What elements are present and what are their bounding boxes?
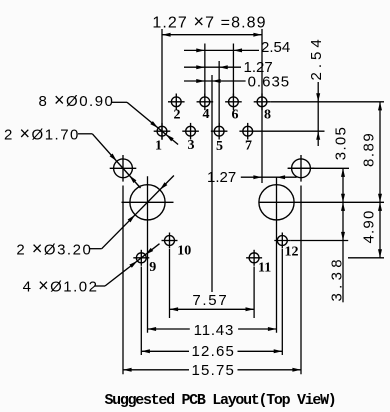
callout 2×Ø3.20 leader [90, 176, 174, 249]
svg-text:11.43: 11.43 [194, 322, 234, 339]
wire pad12-row extension right [290, 240, 348, 242]
svg-text:1.27 ×7 =8.89: 1.27 ×7 =8.89 [152, 12, 266, 32]
dimension 4.90 line [378, 202, 382, 257]
dimension 0.635 label [248, 74, 291, 91]
pin number label 10 [177, 244, 191, 259]
callout 8×Ø0.90 label [39, 90, 115, 110]
dimension 4.90 label [361, 210, 378, 244]
svg-text:15.75: 15.75 [192, 362, 236, 379]
pad 6 (Ø0.90) [225, 94, 242, 111]
dimension 2.54 label [261, 39, 290, 56]
pad 11 (Ø1.02) [246, 250, 262, 266]
pin number label 9 [149, 260, 156, 275]
callout 8×Ø0.90 leader [112, 102, 178, 144]
dimension 1.27 (pin4-pin5) line [184, 65, 241, 69]
pin number label 12 [285, 245, 299, 260]
svg-text:3.38: 3.38 [329, 255, 346, 301]
dimension 7.57 label [192, 292, 228, 309]
svg-text:7.57: 7.57 [192, 292, 228, 309]
svg-text:2.54: 2.54 [261, 39, 290, 56]
dimension 11.43 label [194, 322, 234, 339]
wire left hole H1 extension down [122, 186, 124, 375]
wire pad10 extension down [169, 249, 171, 318]
svg-text:Suggested PCB Layout(Top VieW): Suggested PCB Layout(Top VieW) [104, 392, 335, 409]
dimension 12.65 line [141, 349, 282, 353]
dimension 11.43 line [148, 327, 277, 331]
dimension 3.05 line [341, 168, 345, 202]
svg-text:9: 9 [149, 260, 156, 275]
pin number label 6 [232, 108, 239, 123]
svg-text:4: 4 [203, 107, 210, 122]
pin number label 8 [264, 108, 271, 123]
pad 3 (Ø0.90) [182, 123, 199, 140]
svg-text:0.635: 0.635 [248, 74, 291, 91]
hole H1 left (Ø1.70) [110, 155, 137, 182]
pin number label 2 [174, 108, 181, 123]
callout 4×Ø1.02 label [23, 276, 99, 296]
pad 10 (Ø1.02) [162, 233, 178, 249]
pad 7 (Ø0.90) [239, 123, 256, 140]
dimension 3.38 line [341, 202, 345, 302]
svg-text:4.90: 4.90 [361, 210, 378, 244]
wire pin5 extension line [218, 61, 220, 126]
svg-text:11: 11 [258, 261, 271, 276]
pad 8 (Ø0.90) [254, 94, 271, 111]
wire odd-pin-row extension right [256, 130, 325, 132]
pin number label 4 [203, 107, 210, 122]
wire even-pin-row extension right [270, 101, 384, 103]
svg-text:12: 12 [285, 245, 299, 260]
wire pad11 extension down [253, 267, 255, 319]
svg-text:8 ×Ø0.90: 8 ×Ø0.90 [39, 90, 115, 110]
svg-text:10: 10 [177, 244, 191, 259]
dimension 3.38 label [329, 255, 346, 301]
dimension 8.89 label [361, 132, 378, 167]
svg-text:1: 1 [155, 139, 162, 154]
shield hole left (Ø3.20) [130, 185, 165, 220]
dimension 1.27 (mid) label [207, 169, 236, 186]
dimension 1.27 (pin8 to shield hole) line [241, 175, 297, 179]
dimension 2.54 (pin4-pin6) line [184, 48, 259, 52]
wire center axis line [211, 75, 213, 292]
shield hole right (Ø3.20) [259, 185, 294, 220]
wire right hole H2 extension down [300, 186, 302, 375]
svg-text:2 ×Ø3.20: 2 ×Ø3.20 [16, 239, 92, 259]
pad 5 (Ø0.90) [211, 123, 228, 140]
wire right shield hole horizontal centerline extended [259, 201, 385, 203]
hole H2 right (Ø1.70) [288, 155, 315, 182]
pin number label 1 [155, 139, 162, 154]
svg-text:5: 5 [216, 139, 223, 154]
svg-text:8.89: 8.89 [361, 132, 378, 167]
pin number label 5 [216, 139, 223, 154]
caption Suggested PCB Layout(Top VieW) [104, 392, 335, 409]
wire pin8 extension line [261, 29, 263, 183]
wire pad9-row extension right [348, 257, 384, 259]
wire pin6 extension line [232, 44, 234, 97]
svg-text:2.54: 2.54 [308, 35, 325, 80]
dimension 15.75 line [123, 368, 301, 372]
dimension 1.27×7=8.89 label [152, 12, 266, 32]
dimension 8.89 line [378, 102, 382, 203]
svg-text:8: 8 [264, 108, 271, 123]
callout 4×Ø1.02 leader [94, 244, 159, 286]
pad 4 (Ø0.90) [197, 94, 214, 111]
wire right hole H2 extension right [288, 167, 349, 169]
wire pad12 extension down [281, 249, 283, 355]
svg-text:4 ×Ø1.02: 4 ×Ø1.02 [23, 276, 99, 296]
wire pin4 extension line [204, 44, 206, 97]
pad 1 (Ø0.90) [154, 123, 171, 140]
pad 9 (Ø1.02) [133, 250, 149, 266]
svg-text:1.27: 1.27 [207, 169, 236, 186]
callout 2×Ø3.20 label [16, 239, 92, 259]
svg-text:3.05: 3.05 [333, 126, 350, 160]
svg-text:6: 6 [232, 108, 239, 123]
dimension 2.54 vertical (pin rows) line [316, 82, 320, 146]
dimension 2.54 vertical label [308, 35, 325, 80]
dimension 0.635 (pin4-center) line [184, 79, 246, 83]
dimension 7.57 line [170, 307, 255, 311]
pin number label 7 [245, 139, 252, 154]
wire right shield hole centerline [276, 177, 278, 333]
svg-text:12.65: 12.65 [192, 343, 236, 360]
wire pin1 extension line [161, 29, 163, 140]
wire left shield hole horizontal centerline [122, 201, 174, 203]
dimension 1.27 label [244, 59, 273, 76]
svg-text:2 ×Ø1.70: 2 ×Ø1.70 [4, 124, 80, 144]
wire left shield hole centerline [147, 176, 149, 333]
svg-text:3: 3 [188, 138, 195, 153]
svg-text:2: 2 [174, 108, 181, 123]
pad 2 (Ø0.90) [168, 94, 185, 111]
pad 12 (Ø1.02) [274, 233, 290, 249]
dimension 15.75 label [192, 362, 236, 379]
dimension 3.05 label [333, 126, 350, 160]
dimension 1.27×7=8.89 line [162, 33, 262, 37]
dimension 12.65 label [192, 343, 236, 360]
callout 2×Ø1.70 label [4, 124, 80, 144]
wire pad9 extension down [140, 267, 142, 356]
pin number label 11 [258, 261, 271, 276]
pin number label 3 [188, 138, 195, 153]
svg-text:7: 7 [245, 139, 252, 154]
callout 2×Ø1.70 leader [78, 134, 141, 188]
